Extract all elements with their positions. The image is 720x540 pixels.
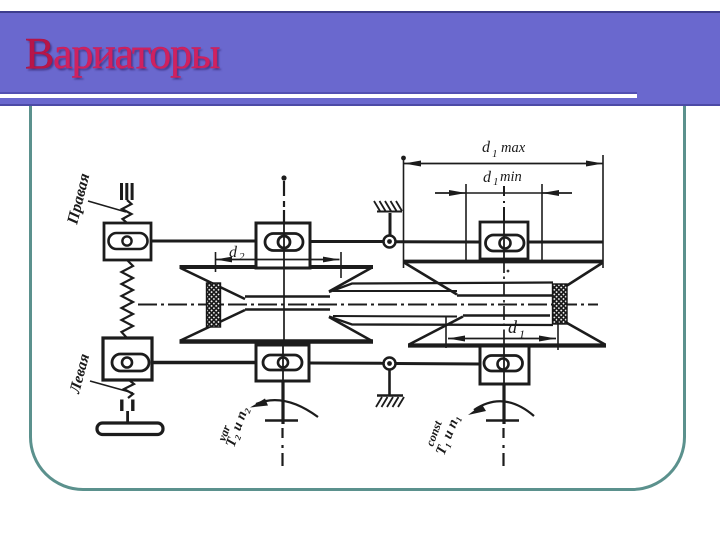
left pulley upper cone	[180, 267, 374, 299]
dimension d2	[216, 244, 342, 278]
right pulley lower cone	[408, 316, 606, 346]
belt runs	[329, 283, 553, 326]
dimension d1 max	[401, 139, 603, 268]
label T2 n2 var	[215, 404, 253, 449]
axis through B6	[503, 347, 505, 384]
svg-text:max: max	[501, 140, 526, 156]
input axis below B6	[486, 384, 519, 466]
spring lower	[124, 380, 134, 398]
rotation arrow left	[250, 399, 318, 418]
speck inside upper right cone	[507, 270, 510, 273]
horizontal centerline	[138, 304, 598, 306]
svg-text:1: 1	[493, 176, 499, 188]
label Levaya	[66, 352, 133, 396]
label T1 n1 const	[423, 412, 464, 457]
svg-text:d: d	[229, 244, 238, 261]
bearing block B3	[480, 222, 528, 259]
content frame	[29, 46, 686, 491]
centerline above B2	[281, 175, 286, 223]
dimension d1	[446, 316, 558, 350]
lever handle	[97, 411, 163, 435]
title	[25, 28, 219, 79]
axis through B2	[283, 224, 285, 268]
svg-text:1: 1	[492, 148, 498, 160]
bearing block B5	[256, 345, 309, 381]
centerline above B3	[503, 186, 505, 222]
bottom pivot circle	[384, 358, 396, 370]
right pulley hatched hub	[553, 284, 568, 324]
header band	[0, 11, 720, 106]
bearing block B1	[104, 223, 151, 260]
bottom shaft wires	[152, 363, 480, 365]
axis through B5	[282, 346, 284, 381]
svg-text:d: d	[508, 317, 518, 337]
right pulley upper cone	[403, 262, 604, 296]
left pulley centerline vertical	[283, 268, 285, 345]
left pulley lower cone	[180, 310, 374, 342]
svg-text:Правая: Правая	[64, 172, 93, 227]
svg-text:min: min	[500, 169, 522, 185]
top pivot circle	[384, 236, 396, 248]
label Pravaya	[64, 172, 126, 227]
svg-text:Левая: Левая	[66, 352, 93, 396]
svg-text:1: 1	[519, 327, 525, 341]
svg-text:2: 2	[239, 251, 245, 263]
axis through B3	[503, 223, 505, 262]
left pulley waist lines	[245, 297, 330, 310]
bearing block B6	[480, 346, 529, 384]
top fixed hatch over left spring	[122, 183, 133, 200]
svg-text:d: d	[482, 139, 491, 156]
bottom pivot link and anchor	[376, 370, 404, 408]
left pulley hatched hub	[207, 283, 221, 327]
spring upper	[122, 200, 132, 223]
bearing block B2	[256, 223, 310, 268]
top pivot link and anchor	[374, 201, 402, 235]
bearing block B4	[103, 338, 152, 380]
svg-text:d: d	[483, 169, 492, 186]
right pulley centerline vertical	[503, 259, 505, 346]
spring middle	[122, 260, 134, 338]
rotation arrow right	[468, 401, 534, 416]
output axis below B5	[265, 381, 298, 466]
dimension d1 min	[435, 169, 572, 262]
damper marks	[122, 400, 133, 412]
top shaft wires	[151, 241, 604, 242]
